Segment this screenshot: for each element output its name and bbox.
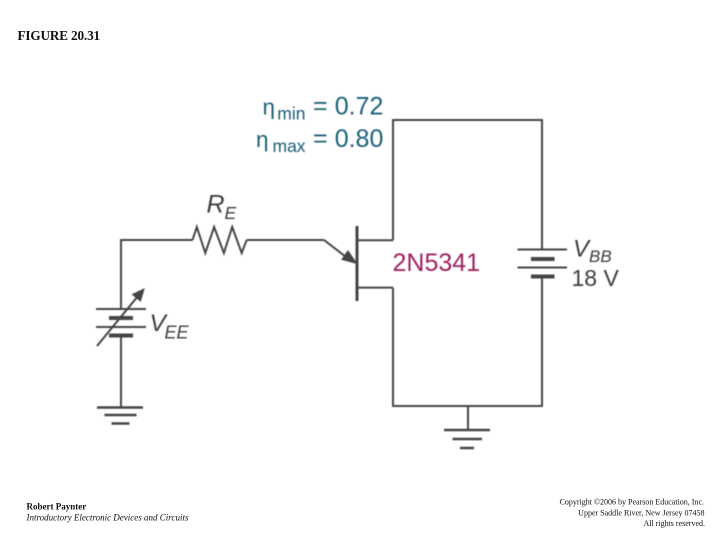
label eta_min = 0.72: [263, 92, 384, 124]
wire: resistor to emitter bend: [247, 239, 324, 241]
wire: ground stub: [467, 406, 469, 429]
svg-text:η: η: [263, 95, 276, 120]
variable arrowhead: [133, 289, 145, 301]
svg-text:Introductory Electronic Device: Introductory Electronic Devices and Circ…: [26, 513, 189, 523]
wire: B1 vertical down: [392, 288, 394, 407]
variable arrow through VEE: [97, 296, 138, 346]
wire: emitter horizontal from node A to resistor: [121, 239, 193, 241]
resistor RE zigzag: [193, 227, 247, 253]
wire: base B1 lead: [358, 287, 393, 289]
wire: top horizontal: [392, 119, 543, 121]
svg-text:EE: EE: [165, 323, 190, 343]
emitter arrowhead: [342, 251, 356, 263]
svg-text:18 V: 18 V: [572, 265, 620, 291]
svg-text:η: η: [256, 127, 269, 152]
svg-text:0.80: 0.80: [335, 125, 384, 153]
svg-text:min: min: [277, 103, 305, 123]
wire: B2 vertical up: [392, 120, 394, 240]
svg-text:2N5341: 2N5341: [393, 249, 481, 277]
svg-text:All rights reserved.: All rights reserved.: [643, 519, 705, 528]
label VEE: [150, 310, 190, 343]
svg-text:=: =: [313, 92, 328, 120]
svg-text:E: E: [225, 203, 237, 223]
svg-text:Upper Saddle River, New Jersey: Upper Saddle River, New Jersey 07458: [578, 509, 704, 518]
wire: emitter diagonal into UJT: [324, 240, 348, 259]
wire: VBB bottom to lower rail: [541, 277, 543, 408]
ground left: [97, 408, 143, 424]
battery VEE (variable): [96, 309, 146, 336]
wire: VEE bottom to ground: [120, 336, 122, 408]
svg-text:Copyright ©2006 by Pearson Edu: Copyright ©2006 by Pearson Education, In…: [560, 498, 705, 507]
svg-text:0.72: 0.72: [335, 92, 384, 120]
wire: bottom horizontal rail: [392, 405, 543, 407]
svg-text:R: R: [207, 191, 225, 219]
svg-text:max: max: [273, 136, 306, 156]
svg-text:BB: BB: [589, 247, 612, 266]
label RE: [207, 191, 237, 224]
wire: base B2 lead: [358, 239, 393, 241]
svg-text:FIGURE 20.31: FIGURE 20.31: [18, 28, 100, 43]
transistor 2N5341 UJT bar: [356, 226, 359, 301]
label VBB: [573, 236, 612, 267]
ground right: [444, 430, 490, 448]
battery VBB: [518, 250, 568, 277]
svg-text:=: =: [313, 124, 328, 152]
wire: node A vertical down to VEE: [120, 239, 122, 309]
svg-text:Robert Paynter: Robert Paynter: [27, 502, 87, 512]
label eta_max = 0.80: [256, 124, 383, 155]
wire: right vertical down to VBB: [541, 120, 543, 250]
